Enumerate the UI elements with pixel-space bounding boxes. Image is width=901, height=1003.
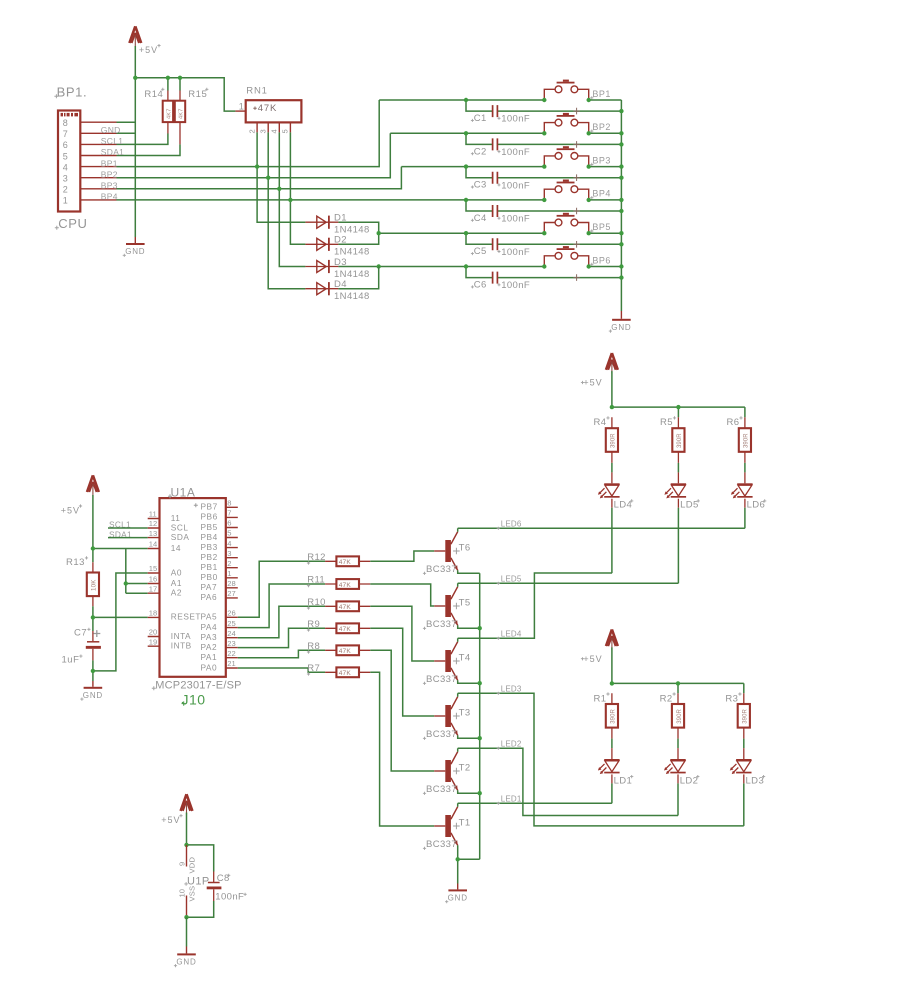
svg-text:6: 6 xyxy=(227,519,231,528)
net label +5V (bank) xyxy=(581,378,603,388)
LED LD2 xyxy=(664,759,699,786)
LED LD3 xyxy=(730,759,765,786)
svg-text:R5: R5 xyxy=(660,417,673,428)
transistor T2 BC337 xyxy=(423,752,471,795)
resistor R10 xyxy=(307,597,370,611)
svg-text:28: 28 xyxy=(227,579,235,588)
wire R8 to T2 base xyxy=(370,650,434,771)
svg-text:10K: 10K xyxy=(91,579,98,591)
net label LED6 xyxy=(497,519,522,530)
junction dot row 5 at x466 xyxy=(464,231,468,235)
svg-text:PA0: PA0 xyxy=(201,662,218,672)
svg-text:BC337: BC337 xyxy=(426,619,457,630)
svg-text:R13: R13 xyxy=(66,557,85,568)
capacitor C8 xyxy=(207,872,247,903)
svg-text:R14: R14 xyxy=(144,89,163,100)
connector CPU header BP1. xyxy=(58,111,117,212)
junction dots +5V / A1 xyxy=(91,546,128,585)
svg-text:100nF: 100nF xyxy=(501,214,530,225)
junction dot row 3 at x466 xyxy=(464,164,468,168)
svg-text:10: 10 xyxy=(177,889,186,897)
junction dot GND node xyxy=(91,669,95,673)
svg-text:8: 8 xyxy=(227,499,231,508)
wire net LED6 xyxy=(458,527,745,529)
label CPU (connector value) xyxy=(55,216,88,231)
push button BP5 xyxy=(544,213,588,248)
wire +5V rail to RN1 pin1 xyxy=(135,78,235,111)
svg-text:C5: C5 xyxy=(474,246,487,257)
resistor R5 xyxy=(660,416,685,463)
wire cap drop group 1 xyxy=(466,100,621,111)
svg-text:U1A: U1A xyxy=(171,486,196,500)
svg-text:LD4: LD4 xyxy=(614,500,633,511)
wire pa11 net: PA pin to R11 xyxy=(238,584,325,628)
push button BP3 xyxy=(544,146,588,181)
svg-text:R6: R6 xyxy=(727,417,740,428)
svg-text:PA5: PA5 xyxy=(201,612,218,622)
capacitor C4 xyxy=(471,205,530,225)
svg-text:C4: C4 xyxy=(474,213,487,224)
junction dots button BP3 pins xyxy=(542,164,591,168)
svg-text:2: 2 xyxy=(247,129,256,133)
wire GND rail (buttons) xyxy=(620,100,622,311)
wire cap drop group 3 xyxy=(466,167,621,178)
svg-text:R3: R3 xyxy=(725,693,738,704)
net label +5V (left) xyxy=(61,504,82,515)
svg-text:BC337: BC337 xyxy=(426,784,457,795)
resistor R6 xyxy=(727,416,752,463)
svg-text:RN1: RN1 xyxy=(246,86,267,97)
net label SDA1 xyxy=(101,147,124,157)
wire C8 to VSS node xyxy=(187,901,214,917)
push button BP6 xyxy=(544,246,588,281)
wire button BP4 right pin to rail xyxy=(589,199,622,201)
svg-text:T4: T4 xyxy=(459,652,471,663)
wire R4 to LD4 xyxy=(611,463,613,483)
svg-text:PB0: PB0 xyxy=(201,572,218,582)
wire T2 emitter to rail xyxy=(458,790,480,793)
wire net BP4 row xyxy=(117,199,545,201)
svg-text:4: 4 xyxy=(227,539,231,548)
svg-text:PB7: PB7 xyxy=(201,502,218,512)
resistor R14 xyxy=(144,88,173,134)
wire R5 to LD5 xyxy=(677,463,679,483)
resistor R3 xyxy=(725,692,750,738)
svg-text:100nF: 100nF xyxy=(501,180,530,191)
push button BP4 xyxy=(544,180,588,215)
IC U1A MCP23017 xyxy=(148,498,238,677)
svg-text:390R: 390R xyxy=(611,708,617,723)
resistor R4 xyxy=(594,416,619,463)
wire R6 to LD6 xyxy=(744,463,746,483)
transistor T1 BC337 xyxy=(423,807,471,850)
wire button BP6 right pin to rail xyxy=(589,266,622,268)
svg-text:BC337: BC337 xyxy=(426,674,457,685)
svg-text:INTB: INTB xyxy=(171,641,192,651)
ground GND (C7) xyxy=(80,681,103,701)
resistor network RN1 xyxy=(235,86,301,134)
resistor R13 xyxy=(66,556,99,606)
wire T5 collector stub xyxy=(457,583,459,586)
svg-text:SDA: SDA xyxy=(171,532,190,542)
wire button BP5 right pin to rail xyxy=(589,232,622,234)
wire net LED3 xyxy=(458,693,744,826)
svg-text:BP5: BP5 xyxy=(592,222,611,232)
junction dot VSS node xyxy=(184,915,188,919)
svg-text:BC337: BC337 xyxy=(426,729,457,740)
svg-text:+5V: +5V xyxy=(139,45,158,55)
junction dots bank rail xyxy=(610,405,681,409)
svg-text:1: 1 xyxy=(239,101,244,111)
wire button row 1 xyxy=(379,99,544,101)
svg-text:PA2: PA2 xyxy=(201,642,218,652)
svg-text:47K: 47K xyxy=(339,604,352,611)
svg-text:R11: R11 xyxy=(307,575,325,586)
svg-text:PA1: PA1 xyxy=(201,652,218,662)
svg-text:PB2: PB2 xyxy=(201,552,218,562)
svg-text:+5V: +5V xyxy=(161,815,180,825)
svg-text:SCL1: SCL1 xyxy=(101,136,123,146)
svg-text:100nF: 100nF xyxy=(501,114,530,125)
label MCP23017-E/SP xyxy=(152,680,242,692)
svg-text:A1: A1 xyxy=(171,578,182,588)
svg-text:+5V: +5V xyxy=(583,378,602,388)
junction dots GND rail xyxy=(619,109,623,280)
resistor R2 xyxy=(660,692,685,738)
junction dots bank rail xyxy=(610,681,681,685)
svg-text:GND: GND xyxy=(101,125,121,135)
svg-text:BC337: BC337 xyxy=(426,839,457,850)
svg-text:T5: T5 xyxy=(459,597,471,608)
wire R3 to LD3 xyxy=(743,739,745,759)
wire R7 to T1 base xyxy=(370,672,434,826)
svg-text:PB4: PB4 xyxy=(201,532,218,542)
wire cap drop group 2 xyxy=(466,133,621,144)
resistor R11 xyxy=(307,575,370,589)
svg-text:17: 17 xyxy=(149,584,157,593)
svg-text:LD1: LD1 xyxy=(614,775,633,786)
svg-text:4K7: 4K7 xyxy=(178,108,184,119)
svg-text:3: 3 xyxy=(227,549,231,558)
svg-text:23: 23 xyxy=(227,639,235,648)
svg-text:PB1: PB1 xyxy=(201,562,218,572)
wire R10 to T4 base xyxy=(370,606,434,661)
net label SCL1 (IC) xyxy=(109,520,131,530)
svg-text:R1: R1 xyxy=(594,693,607,704)
LED LD5 xyxy=(664,483,699,510)
svg-text:BP4: BP4 xyxy=(101,192,118,202)
svg-text:BP1.: BP1. xyxy=(57,85,88,100)
capacitor C5 xyxy=(471,238,530,258)
resistor R15 xyxy=(175,88,209,145)
transistor T5 BC337 xyxy=(423,587,471,630)
U1P power pins VDD VSS xyxy=(177,845,196,917)
net label BP4 xyxy=(101,192,118,202)
svg-text:LD3: LD3 xyxy=(746,775,765,786)
svg-text:9: 9 xyxy=(177,862,186,866)
diode D1 xyxy=(305,213,369,236)
svg-text:BP1: BP1 xyxy=(101,158,118,168)
wire cap drop group 5 xyxy=(466,233,621,244)
label U1A xyxy=(168,486,195,500)
wire button BP3 right pin to rail xyxy=(589,166,622,168)
resistor R8 xyxy=(307,641,370,655)
svg-text:A2: A2 xyxy=(171,588,182,598)
wire D4 cathode up to D3 row xyxy=(338,267,378,289)
svg-text:C2: C2 xyxy=(474,146,487,157)
svg-text:C7: C7 xyxy=(74,628,87,639)
junction dots button BP2 pins xyxy=(542,131,591,135)
svg-text:22: 22 xyxy=(227,649,235,658)
svg-text:3: 3 xyxy=(63,174,68,184)
wire LD2 cathode down xyxy=(677,774,679,815)
svg-text:T1: T1 xyxy=(459,817,471,828)
resistor R7 xyxy=(307,663,370,677)
push button BP1 xyxy=(544,80,588,115)
wire R12 to T6 base xyxy=(370,551,434,561)
svg-text:BC337: BC337 xyxy=(426,564,457,575)
svg-text:R9: R9 xyxy=(307,619,320,630)
label BP1. (connector name) xyxy=(54,85,87,100)
ground GND (transistors) xyxy=(445,884,468,904)
net label BP3 xyxy=(101,181,118,191)
net label BP5 (button) xyxy=(590,222,611,233)
svg-text:8: 8 xyxy=(63,118,68,128)
svg-text:BP2: BP2 xyxy=(101,169,118,179)
capacitor C6 xyxy=(471,272,530,292)
ground GND (button rail) xyxy=(609,311,632,333)
wire T3 collector stub xyxy=(457,693,459,696)
wire LD4 cathode down xyxy=(611,499,613,573)
wire R2 to LD2 xyxy=(677,739,679,759)
wire R14 bottom to SCL1 row xyxy=(117,134,168,145)
svg-text:VDD: VDD xyxy=(187,857,196,874)
svg-text:7: 7 xyxy=(63,129,68,139)
svg-text:LED2: LED2 xyxy=(501,739,522,748)
svg-text:16: 16 xyxy=(149,575,157,584)
svg-text:390R: 390R xyxy=(677,433,683,448)
ground GND (below +5V vertical) xyxy=(123,237,146,257)
diode D3 xyxy=(305,257,369,280)
wire T4 emitter to rail xyxy=(458,680,480,683)
svg-text:21: 21 xyxy=(227,659,235,668)
wire R13 to RESET xyxy=(93,606,148,631)
svg-text:100nF: 100nF xyxy=(501,247,530,258)
svg-text:LED3: LED3 xyxy=(501,684,522,693)
svg-text:R8: R8 xyxy=(307,641,320,652)
svg-text:100nF: 100nF xyxy=(501,280,530,291)
wire net BP1 row with riser xyxy=(117,100,380,167)
svg-text:LED1: LED1 xyxy=(501,794,522,803)
capacitor C7 (polarized) xyxy=(62,628,101,666)
label U1P xyxy=(184,875,209,887)
transistor T3 BC337 xyxy=(423,697,471,740)
wire RN1 pin3 vertical to D4 xyxy=(268,132,305,288)
wire net BP3 row with riser xyxy=(117,167,402,189)
wire +5V vertical to connector and GND xyxy=(134,46,136,237)
wire LD6 cathode down xyxy=(744,499,746,529)
svg-text:R4: R4 xyxy=(594,417,607,428)
net label LED3 xyxy=(497,684,522,695)
+5V supply (U1 power) xyxy=(181,794,193,814)
LED LD1 xyxy=(598,759,633,786)
svg-text:RESET: RESET xyxy=(171,612,201,622)
svg-text:PA7: PA7 xyxy=(201,582,218,592)
svg-text:390R: 390R xyxy=(611,433,617,448)
wire T6 emitter to rail xyxy=(458,570,480,573)
svg-text:20: 20 xyxy=(149,628,157,637)
svg-text:19: 19 xyxy=(149,637,157,646)
wire LD1 cathode down xyxy=(611,774,613,803)
wire pin7 GND xyxy=(117,132,136,134)
svg-text:47K: 47K xyxy=(339,648,352,655)
svg-text:T2: T2 xyxy=(459,762,471,773)
+5V supply (U1A reset area) xyxy=(87,475,99,495)
svg-text:390R: 390R xyxy=(744,433,750,448)
LED LD4 xyxy=(598,483,633,510)
resistor R9 xyxy=(307,619,370,633)
+5V supply (top left) xyxy=(129,26,141,46)
svg-text:LED4: LED4 xyxy=(501,629,522,638)
svg-text:14: 14 xyxy=(171,543,181,553)
wire cap drop group 4 xyxy=(466,200,621,211)
svg-text:1: 1 xyxy=(227,569,231,578)
wire R14 R15 pullup tops xyxy=(168,78,180,91)
wire T4 collector stub xyxy=(457,638,459,641)
svg-text:PA6: PA6 xyxy=(201,592,218,602)
svg-text:J10: J10 xyxy=(182,691,206,707)
junction dots button BP4 pins xyxy=(542,198,591,202)
capacitor C2 xyxy=(471,138,530,158)
wire pa10 net: PA pin to R10 xyxy=(238,606,325,637)
wire RN1 pin4 vertical to D3 xyxy=(279,132,305,266)
svg-text:R7: R7 xyxy=(307,663,320,674)
resistor R1 xyxy=(594,692,619,738)
net label BP2 (button) xyxy=(590,122,611,133)
diode D2 xyxy=(305,235,369,258)
svg-text:PB3: PB3 xyxy=(201,542,218,552)
wire D3 cathode to BP6 button row xyxy=(338,264,544,268)
wire R11 to T5 base xyxy=(370,584,434,606)
wire net LED2 xyxy=(458,748,678,815)
svg-text:U1P: U1P xyxy=(187,875,210,887)
svg-text:CPU: CPU xyxy=(58,216,87,231)
wire button row 2 xyxy=(390,132,544,134)
wire pa8 net: PA pin to R8 xyxy=(238,650,325,657)
wire D2 cathode up to node xyxy=(338,233,378,244)
junction dots RN1 pins to BP rows xyxy=(255,164,293,202)
svg-text:11: 11 xyxy=(171,513,181,523)
wire T3 emitter to rail xyxy=(458,735,480,738)
junction dots emitter rail xyxy=(478,626,482,795)
wire +5V to pin14 with A1 A2 jog xyxy=(93,549,148,594)
junction dot T1 emitter xyxy=(456,857,460,861)
capacitor C3 xyxy=(471,172,530,192)
net label SCL1 xyxy=(101,136,123,146)
wire T5 emitter to rail xyxy=(458,625,480,628)
+5V supply (LED bank 1) xyxy=(606,629,618,649)
junction dots button BP5 pins xyxy=(542,231,591,235)
svg-text:5: 5 xyxy=(227,529,231,538)
net label +5V (top left) xyxy=(139,44,161,55)
svg-text:INTA: INTA xyxy=(171,631,191,641)
wire +5V bank rail xyxy=(612,371,745,417)
net label +5V (bank) xyxy=(581,654,603,664)
wire VSS to GND xyxy=(186,917,188,946)
net label BP4 (button) xyxy=(590,189,611,200)
svg-text:15: 15 xyxy=(149,564,157,573)
svg-text:LED6: LED6 xyxy=(501,519,522,528)
junction dot RESET xyxy=(91,615,95,619)
svg-text:LED5: LED5 xyxy=(501,574,522,583)
svg-text:C6: C6 xyxy=(474,280,487,291)
svg-text:SCL: SCL xyxy=(171,522,189,532)
svg-text:SDA1: SDA1 xyxy=(101,147,124,157)
svg-text:C1: C1 xyxy=(474,113,487,124)
transistor T6 BC337 xyxy=(423,532,471,575)
junction dot row 6 at x466 xyxy=(464,264,468,268)
junction dot row 2 at x466 xyxy=(464,131,468,135)
net label BP1 xyxy=(101,158,118,168)
svg-text:12: 12 xyxy=(149,519,157,528)
svg-text:47K: 47K xyxy=(339,559,352,566)
wire net LED1 xyxy=(458,802,612,804)
svg-text:47K: 47K xyxy=(258,103,277,114)
wire T2 collector stub xyxy=(457,748,459,751)
net label BP2 xyxy=(101,169,118,179)
svg-text:MCP23017-E/SP: MCP23017-E/SP xyxy=(155,680,241,692)
svg-text:4: 4 xyxy=(63,162,68,172)
wire pa12 net: PA pin to R12 xyxy=(238,561,325,617)
svg-text:PA3: PA3 xyxy=(201,632,218,642)
diode D4 xyxy=(305,279,369,302)
net label LED1 xyxy=(497,794,522,805)
svg-text:2: 2 xyxy=(227,559,231,568)
svg-text:R12: R12 xyxy=(307,552,326,563)
svg-text:100nF: 100nF xyxy=(215,892,244,903)
net label LED2 xyxy=(497,739,522,750)
svg-text:1uF: 1uF xyxy=(62,655,80,666)
junction dots button BP6 pins xyxy=(542,264,591,268)
svg-text:7: 7 xyxy=(227,509,231,518)
net label GND (pin7) xyxy=(101,125,121,135)
wire button row 3 xyxy=(401,166,544,168)
wire D1 cathode xyxy=(338,222,378,233)
wire emitter rail xyxy=(479,573,481,859)
svg-text:T6: T6 xyxy=(459,542,471,553)
svg-text:1: 1 xyxy=(63,196,68,206)
junction dot row 1 at x466 xyxy=(464,98,468,102)
wire LD3 cathode down xyxy=(743,774,745,826)
svg-text:4: 4 xyxy=(270,129,279,133)
svg-text:13: 13 xyxy=(149,529,157,538)
svg-text:BP3: BP3 xyxy=(592,155,611,165)
svg-text:47K: 47K xyxy=(339,670,352,677)
svg-text:390R: 390R xyxy=(743,708,749,723)
svg-text:PB6: PB6 xyxy=(201,512,218,522)
svg-text:2: 2 xyxy=(63,185,68,195)
svg-text:BP3: BP3 xyxy=(101,181,118,191)
net label LED5 xyxy=(497,574,522,585)
wire +5V down to R13 xyxy=(92,495,94,562)
net label +5V (U1 power) xyxy=(161,814,182,825)
wire net BP2 row with riser xyxy=(117,133,391,177)
junction dot VDD node xyxy=(184,843,188,847)
svg-text:11: 11 xyxy=(149,510,157,519)
wire cap drop group 6 xyxy=(466,267,621,278)
junction dot row 4 at x466 xyxy=(464,198,468,202)
svg-text:1N4148: 1N4148 xyxy=(334,291,370,302)
